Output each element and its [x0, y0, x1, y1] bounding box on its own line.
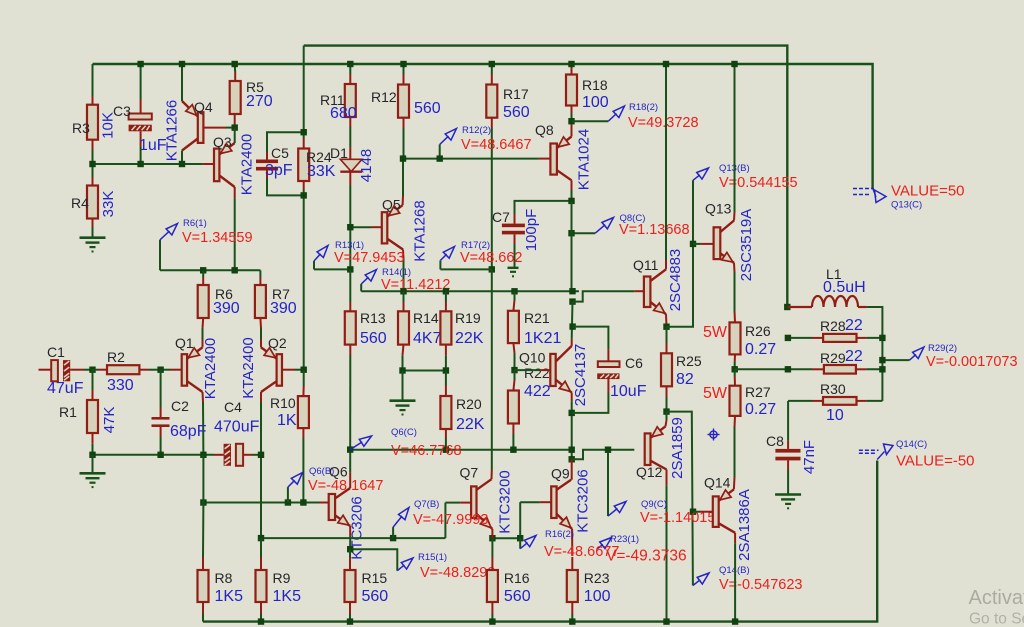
svg-text:Q13: Q13 [705, 201, 732, 217]
wire Q11 emitter to Q13 base column [667, 180, 694, 326]
wire rail to R18 [571, 64, 573, 66]
node right bus-R28 [879, 335, 885, 341]
wire Q13 emitter to R26 [734, 272, 736, 311]
node R10-Q6 base row [300, 499, 306, 505]
svg-text:R16: R16 [504, 570, 530, 586]
wire Q12 base row right [608, 449, 634, 451]
wire Q14 collector pin [734, 533, 736, 544]
svg-text:C8: C8 [766, 433, 784, 449]
wire Q14 base pin [700, 511, 713, 513]
svg-text:3pF: 3pF [265, 162, 293, 179]
svg-text:VALUE=-50: VALUE=-50 [896, 453, 975, 470]
node rail-R9 [258, 618, 264, 624]
wire ground row y455 [93, 454, 215, 456]
svg-text:22K: 22K [456, 416, 485, 433]
wire R15 row y549 [350, 549, 397, 571]
node jog-Q9c [569, 456, 575, 462]
node C1-R1-R2 junction [89, 367, 95, 373]
wire to ground symbol [92, 455, 94, 472]
wire C6 bottom branch [572, 393, 609, 413]
svg-text:560: 560 [503, 104, 530, 121]
node probe Q8C tap [568, 230, 574, 236]
node probe Q9C tap [605, 447, 611, 453]
svg-text:KTA1268: KTA1268 [411, 200, 428, 261]
wire R7 to Q2 emitter [260, 328, 262, 339]
node right bus-R29 [879, 366, 885, 372]
node Q2c-R9-row538 [258, 535, 264, 541]
wire R15 to bottom rail [349, 614, 351, 622]
svg-text:2SC4137: 2SC4137 [572, 344, 589, 407]
wire Q7 base route [445, 502, 460, 504]
wire R22 down to row449 [512, 434, 514, 450]
resistor R8 [198, 557, 244, 614]
svg-text:R8: R8 [215, 570, 233, 586]
wire Q1 collector down [202, 402, 204, 455]
wire Q10 collector pin [571, 339, 573, 346]
wire Q8 collector down [571, 190, 573, 201]
resistor R7 [255, 277, 297, 328]
wire R4 to ground [92, 227, 94, 237]
svg-text:Q6: Q6 [329, 464, 348, 480]
svg-text:Q6(C): Q6(C) [391, 427, 417, 438]
resistor R20 [440, 385, 484, 438]
wire Q5 base row [350, 226, 371, 228]
wire Q11 collector to rail [665, 64, 667, 260]
voltage probe Q6(C) [350, 427, 461, 459]
wire R26 to output node [734, 362, 736, 369]
svg-text:4148: 4148 [358, 149, 375, 182]
svg-text:390: 390 [270, 300, 297, 317]
transistor Q14 2SA1386A [704, 475, 753, 561]
wire R1 to ground row [92, 444, 94, 455]
node Q10e-C6 bottom [569, 410, 575, 416]
svg-text:Q14(C): Q14(C) [896, 439, 927, 450]
svg-text:R1: R1 [59, 404, 77, 420]
wire C7 to ground [514, 244, 516, 267]
wire node to R25 [666, 327, 668, 343]
wire R16 to bottom rail [491, 614, 493, 622]
svg-text:C6: C6 [625, 355, 643, 371]
resistor R30 [812, 381, 866, 424]
svg-text:560: 560 [362, 588, 389, 605]
node rail-R18 [568, 61, 574, 67]
svg-text:Q4: Q4 [194, 99, 213, 115]
svg-text:V=48.6467: V=48.6467 [461, 137, 532, 153]
wire down to R8 [202, 503, 204, 558]
svg-text:560: 560 [414, 100, 441, 117]
wire row538 to R9 [260, 538, 262, 557]
svg-text:R10: R10 [270, 395, 296, 411]
wire Q9 collector pin [571, 459, 573, 480]
diode D1 4148 [330, 145, 375, 185]
voltage probe R17(2) [440, 240, 522, 266]
capacitor C5 [256, 145, 293, 179]
svg-text:82: 82 [676, 371, 694, 388]
resistor R26 [703, 311, 776, 362]
node probe Q6B tap [285, 499, 291, 505]
wire Q6 emitter to R15 node [349, 536, 351, 549]
svg-text:2SC4883: 2SC4883 [667, 249, 684, 312]
wire node to C2 [160, 370, 162, 407]
svg-text:KTA1266: KTA1266 [163, 100, 180, 161]
wire Q3 collector to diff pair tail [234, 198, 236, 270]
ground R1 [80, 473, 106, 488]
wire Q2 base to R24 node [295, 369, 304, 371]
capacitor C2 68pF [152, 398, 207, 440]
node probe R29(2) tap [879, 357, 885, 363]
wire rail to R5 [234, 64, 237, 72]
svg-text:330: 330 [107, 377, 134, 394]
node jog-Q8c bus [569, 298, 575, 304]
svg-text:10uF: 10uF [610, 383, 647, 400]
voltage probe R15(1) [397, 552, 495, 581]
wire Q5 collector to VAS row [403, 258, 405, 291]
svg-text:5W: 5W [703, 324, 728, 341]
node Q8c-C7 junction [568, 198, 574, 204]
node probe Q7B tap [390, 535, 396, 541]
wire Q6 base row y502 [203, 502, 319, 504]
svg-text:Q1: Q1 [175, 335, 194, 351]
wire Q4 collector to bias row [181, 151, 183, 165]
wire Q12 emitter pin [666, 420, 667, 426]
node R19-R20 [443, 367, 449, 373]
transistor Q7 KTC3200 [460, 465, 514, 534]
wire Q10 base pin [540, 369, 550, 371]
node rail-Q14c [732, 618, 738, 624]
node Q14 base tap [690, 509, 696, 515]
wire R24 to Q2 base node [303, 190, 305, 370]
svg-text:R27: R27 [745, 384, 771, 400]
node left bus-R28 [785, 335, 791, 341]
wire R25 to Q12 emitter node [666, 397, 668, 412]
svg-text:R20: R20 [456, 396, 482, 412]
wire Q9 base pin [540, 501, 552, 503]
wire R17 long drop to R17(2) node [491, 128, 493, 269]
wire Q13 collector pin [733, 212, 736, 221]
voltage probe Q9(C) [608, 450, 715, 526]
wire to mid ground [402, 371, 404, 400]
wire R12 to Q5 emitter rail [403, 128, 405, 159]
svg-text:R6(1): R6(1) [183, 218, 207, 229]
wire Q11 base pin [634, 290, 644, 292]
node Q2 base-R24-R10 junction [301, 367, 307, 373]
wire Q2 collector down to Q7 base row [260, 402, 262, 538]
wire positive supply rail (top rail B) to +50V source [93, 64, 873, 188]
node R25-Q12e-Q14b [663, 408, 669, 414]
wire Q3 collector pin [234, 187, 236, 198]
resistor R17 [486, 74, 529, 128]
node tail-R6 [200, 267, 206, 273]
voltage probe R12(2) [440, 125, 532, 159]
wire Q10 collector up bus [571, 302, 574, 339]
transistor Q3 KTA2400 [213, 134, 255, 195]
node R12-Q5e junction [400, 155, 406, 161]
svg-text:V=-0.0017073: V=-0.0017073 [926, 354, 1018, 370]
transistor Q5 KTA1268 [382, 197, 429, 262]
svg-text:1K5: 1K5 [273, 588, 302, 605]
node bias row-Q4c junction [179, 161, 185, 167]
wire Q1 collector pin [202, 392, 205, 402]
wire R2 to Q1 base node [149, 369, 161, 371]
wire Q5 emitter pin [402, 196, 404, 205]
transistor Q12 2SA1859 [636, 417, 686, 480]
voltage probe Q7(B) [393, 499, 488, 538]
svg-text:Q9: Q9 [551, 466, 570, 482]
node A R5-Q4b-Q3e junction [232, 124, 238, 130]
transistor Q11 2SC4883 [633, 249, 684, 314]
resistor R4 [71, 177, 117, 227]
svg-text:22K: 22K [455, 330, 484, 347]
wire Q10 emitter pin [571, 393, 573, 402]
svg-text:0.27: 0.27 [745, 341, 776, 358]
wire node to R20 [445, 371, 447, 386]
resistor R18 [566, 66, 609, 113]
svg-text:100pF: 100pF [523, 209, 540, 252]
wire R13 to VAS collector row [349, 355, 351, 450]
svg-text:Q7: Q7 [460, 465, 479, 481]
wire node A to Q3 emitter [234, 128, 236, 143]
resistor R29 [812, 348, 866, 374]
svg-text:R21: R21 [524, 310, 550, 326]
svg-text:2SA1859: 2SA1859 [669, 417, 686, 479]
wire row to R21 [514, 291, 516, 300]
wire R13 top row y269 [314, 268, 350, 270]
resistor R10 [270, 386, 309, 438]
svg-text:R4: R4 [71, 195, 89, 211]
svg-text:V=-47.9993: V=-47.9993 [413, 512, 488, 528]
wire Q13 base lead [693, 243, 701, 245]
svg-text:5W: 5W [703, 385, 728, 402]
wire C5 top jumper [267, 132, 304, 152]
node R24 top-C5 [301, 129, 307, 135]
svg-text:10: 10 [826, 407, 844, 424]
node R21-R22-Q10b [511, 367, 517, 373]
node R14-gnd [399, 367, 405, 373]
wire Q5 emitter up to rail158 [402, 159, 404, 196]
svg-text:422: 422 [524, 383, 551, 400]
node R2-C2-Q1b junction [157, 367, 163, 373]
svg-text:270: 270 [246, 93, 273, 110]
wire R11 to D1 [349, 127, 351, 147]
svg-text:Go to Settings to activ: Go to Settings to activ [969, 611, 1024, 627]
wire probe R14(1) stem [360, 284, 362, 291]
no-connect marker [708, 429, 720, 441]
node Q1c-R8-Q6 base row [200, 499, 206, 505]
node rail-Q11c [663, 61, 669, 67]
svg-text:22: 22 [845, 317, 863, 334]
resistor R19 [440, 302, 483, 355]
ground C7 small [508, 268, 519, 278]
resistor R3 [72, 96, 116, 150]
wire C1 to input node [84, 369, 93, 371]
wire rail to C3 [140, 64, 142, 99]
voltage probe R16(2) [520, 529, 619, 560]
node output R26-R27 [732, 366, 738, 372]
node D1-Q5 base junction [347, 224, 353, 230]
svg-text:R17: R17 [503, 86, 529, 102]
node R20-row449 [443, 447, 449, 453]
wire Q2 emitter pin [260, 339, 262, 347]
svg-text:Q2: Q2 [268, 335, 287, 351]
wire Q8 collector pin [571, 180, 573, 190]
resistor R16 [487, 557, 531, 614]
capacitor C7 100pF [492, 209, 540, 252]
svg-text:Q14: Q14 [704, 475, 731, 491]
wire R20 down to row449 [445, 438, 447, 450]
node rail-R15 [347, 618, 353, 624]
wire C3 to bias row [140, 146, 142, 164]
wire rail to R11 [349, 64, 351, 74]
svg-text:4K7: 4K7 [413, 330, 442, 347]
svg-text:V=1.13668: V=1.13668 [619, 222, 690, 238]
wire Q14 collector to bottom rail [734, 543, 736, 621]
resistor R15 [345, 557, 389, 614]
inductor L1 0.5uH [787, 266, 866, 307]
wire Q10 emitter down bus [571, 401, 573, 459]
svg-text:V=1.34559: V=1.34559 [182, 230, 253, 246]
node output rail-L1 [784, 304, 790, 310]
svg-text:Q3: Q3 [213, 134, 232, 150]
node rail-R17 [489, 61, 495, 67]
wire Q8 base pin [539, 158, 551, 160]
wire mid ground row y370 [403, 370, 446, 372]
node R13 top junction [347, 266, 353, 272]
node Q9b-R16 row [517, 535, 523, 541]
svg-text:560: 560 [504, 588, 531, 605]
resistor R22 [508, 365, 551, 434]
wire Q4 base to node A [226, 127, 235, 129]
wire R14 to mid node [402, 355, 404, 370]
wire R27 to Q14 emitter [734, 427, 736, 477]
transistor Q4 KTA1266 [163, 99, 226, 161]
svg-text:Q9(C): Q9(C) [641, 499, 667, 510]
voltage probe Q13(B) [693, 163, 798, 191]
wire bus to R28 [788, 337, 812, 339]
node C4-Q2c junction [258, 452, 264, 458]
svg-text:33K: 33K [100, 191, 117, 218]
node tail-Q3c [232, 267, 238, 273]
wire R17(2) row [440, 268, 491, 270]
wire Q6 collector pin [349, 472, 351, 488]
node Q1c-C4-ground row [200, 452, 206, 458]
svg-text:Q11: Q11 [633, 257, 659, 273]
transistor Q2 KTA2400 [240, 335, 295, 399]
node row-R19 [443, 288, 449, 294]
wire VAS row y291 (V=11.4212 net) [361, 290, 579, 292]
node row-R14-Q5c [400, 288, 406, 294]
wire input node to Q1 base [161, 369, 170, 371]
node Q7e-R16 [489, 535, 495, 541]
svg-text:V=-0.547623: V=-0.547623 [719, 577, 802, 593]
wire Q3 base pin [203, 163, 214, 165]
svg-text:R14: R14 [413, 310, 439, 326]
wire bootstrap rail (top rail A) down to output node [304, 46, 788, 307]
wire node to R22 [514, 370, 516, 380]
wire C8 branch to R30 [788, 400, 812, 402]
voltage probe R14(1) [361, 267, 450, 293]
wire R30 branch down to C8 [787, 401, 789, 441]
wire R3 to node R3R4 [92, 150, 94, 164]
voltage probe Q14(B) [693, 565, 803, 593]
node R13-Q6c-row449 [347, 446, 353, 452]
svg-text:V=-48.6677: V=-48.6677 [544, 544, 619, 560]
wire Q9 emitter pin to R23 [571, 529, 573, 556]
resistor R21 [508, 300, 562, 353]
wire node to R27 [734, 369, 736, 376]
svg-text:R9: R9 [273, 570, 291, 586]
wire C4 to Q2 collector line [252, 454, 261, 456]
wire C6 top branch [573, 327, 609, 350]
wire diff pair tail row y270 [160, 269, 260, 271]
svg-text:390: 390 [213, 300, 240, 317]
capacitor C3 [113, 99, 167, 154]
wire jog to Q11 base [573, 291, 635, 301]
resistor R23 [567, 557, 611, 614]
svg-text:47uF: 47uF [47, 380, 84, 397]
svg-text:Q7(B): Q7(B) [414, 499, 439, 510]
node R18-Q8e junction [568, 118, 574, 124]
svg-text:VALUE=50: VALUE=50 [891, 183, 965, 200]
capacitor C8 47nF [766, 433, 818, 474]
wire node to R15 [349, 549, 351, 557]
wire R19 to mid node [445, 355, 447, 370]
svg-text:R12(2): R12(2) [462, 125, 491, 136]
svg-text:33K: 33K [307, 163, 336, 180]
node R17(2) junction [489, 266, 495, 272]
voltage probe R23(1) [597, 534, 687, 565]
svg-text:Q10: Q10 [519, 350, 546, 366]
node Q6e-R15 [347, 546, 353, 552]
wire probe R13(1) stem [313, 261, 315, 269]
wire negative supply rail (bottom) to -50V source [203, 461, 877, 622]
wire rail A down to R24 [303, 46, 305, 138]
resistor R6 [198, 277, 240, 328]
svg-text:0.5uH: 0.5uH [823, 279, 866, 296]
wire rail y158 to Q8 base [403, 158, 539, 160]
voltage probe R6(1) [160, 218, 253, 246]
node Q11e-R25-Q13b [663, 324, 669, 330]
wire row449 (VAS output row) [350, 449, 572, 451]
svg-text:47nF: 47nF [801, 440, 818, 474]
svg-text:R23: R23 [584, 570, 610, 586]
resistor R28 [812, 317, 866, 342]
svg-text:V=47.9453: V=47.9453 [334, 250, 405, 266]
wire row to R14 [403, 291, 405, 302]
resistor R5 [230, 72, 273, 128]
svg-text:KTA2400: KTA2400 [202, 338, 219, 399]
transistor Q9 KTC3206 [551, 466, 592, 533]
wire rail to Q4 emitter [181, 64, 183, 101]
svg-text:R29: R29 [820, 350, 846, 366]
voltage probe R29(2) [882, 343, 1017, 370]
wire node to R2 [93, 369, 99, 371]
node R24 bottom-C5 [301, 192, 307, 198]
wire R28 to right bus [866, 337, 882, 339]
svg-text:R25: R25 [676, 353, 702, 369]
voltage probe R18(2) [572, 102, 699, 131]
wire C8 to ground [787, 470, 789, 494]
wire C5 bottom jumper [267, 178, 304, 195]
svg-text:R15(1): R15(1) [418, 552, 447, 563]
wire Q7 collector pin [491, 470, 493, 479]
voltage probe Q6(B) [288, 466, 383, 503]
svg-text:R18: R18 [582, 77, 608, 93]
wire probe R6(1) stem [159, 240, 161, 270]
svg-text:C4: C4 [224, 399, 242, 415]
voltage source probe VALUE=-50 (Q14 collector supply) [859, 439, 975, 470]
svg-text:C1: C1 [47, 344, 65, 360]
wire Q14 emitter pin [733, 477, 736, 489]
